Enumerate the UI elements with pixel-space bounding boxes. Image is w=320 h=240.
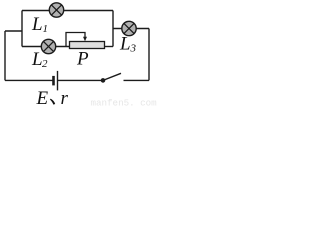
switch S: lever [103,73,121,80]
svg-text:P: P [76,49,89,70]
rheostat P body [70,42,105,49]
svg-text:L: L [31,49,43,70]
wire: bottom branch (left rail to rheostat) [22,46,70,48]
wire: top branch (left rail to right rail through L1) [22,10,113,12]
battery E,r : long thin positive plate [57,71,59,91]
svg-text:2: 2 [42,58,48,70]
watermark manfen5.com [91,98,158,109]
lamp L1 [49,3,63,17]
switch S: pivot dot [101,78,106,83]
wire: rheostat right lead to right rail [104,46,113,48]
svg-text:L: L [31,14,43,35]
label E [36,88,49,109]
label L2 [31,49,48,70]
wire: left rail of parallel section [21,11,23,47]
wire: left connector to parallel section [5,30,22,32]
wire: bottom wire switch to right corner [124,79,150,81]
svg-text:manfen5. com: manfen5. com [91,98,158,109]
wire: left outer wire [4,31,6,80]
label r [61,88,69,109]
label: enumeration comma [50,99,55,105]
label L1 [31,14,48,35]
label L3 [119,34,137,55]
svg-text:1: 1 [43,23,49,35]
svg-text:L: L [119,34,131,55]
wire: L3 branch (right rail to right outer wire) [113,28,149,30]
wire: bottom wire left segment to battery [5,79,53,81]
svg-text:E: E [36,88,49,109]
wire: right outer wire [148,29,150,81]
battery E,r : short thick negative plate [52,76,55,86]
lamp L2 [41,39,55,53]
svg-text:r: r [61,88,69,109]
wire: bottom wire battery to switch [57,79,102,81]
label P [76,49,89,70]
svg-text:3: 3 [130,43,137,55]
wire: right rail of parallel section [112,11,114,47]
rheostat P wiper arm and arrow [66,33,87,47]
lamp L3 [122,21,136,35]
